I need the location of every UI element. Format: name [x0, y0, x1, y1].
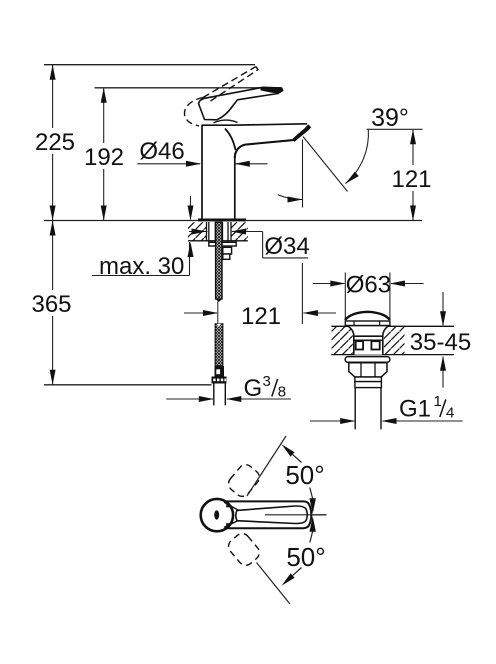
svg-text:121: 121 [391, 166, 431, 193]
svg-text:1: 1 [434, 393, 442, 410]
svg-text:max. 30: max. 30 [99, 253, 184, 280]
svg-text:G: G [244, 375, 263, 402]
svg-text:35-45: 35-45 [410, 329, 471, 356]
svg-text:121: 121 [241, 303, 281, 330]
svg-text:4: 4 [446, 405, 454, 422]
svg-text:Ø34: Ø34 [264, 233, 309, 260]
svg-text:G1: G1 [399, 396, 431, 423]
svg-text:50°: 50° [286, 542, 325, 572]
svg-text:Ø63: Ø63 [346, 272, 391, 299]
svg-text:3: 3 [263, 373, 271, 390]
svg-text:Ø46: Ø46 [139, 138, 184, 165]
svg-text:50°: 50° [285, 460, 324, 490]
svg-text:225: 225 [35, 129, 75, 156]
svg-text:39°: 39° [371, 104, 409, 132]
svg-text:365: 365 [31, 291, 71, 318]
svg-text:192: 192 [84, 144, 124, 171]
svg-text:8: 8 [278, 384, 286, 401]
